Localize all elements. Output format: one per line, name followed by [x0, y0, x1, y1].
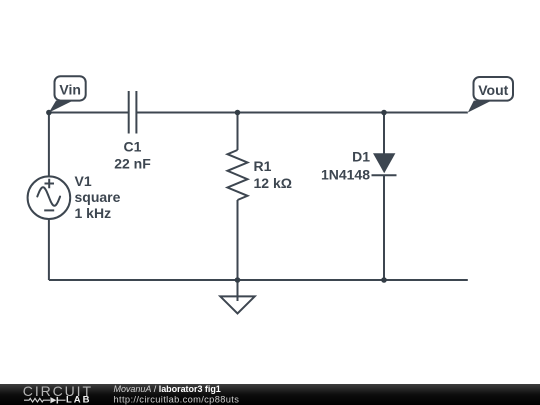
CircuitLab logo waveform with diode — [24, 398, 66, 402]
resistor R1 — [228, 150, 248, 200]
footer bar — [0, 384, 540, 405]
node dot Vin — [46, 110, 52, 116]
wire left vertical lower: V1 bottom to bottom rail — [48, 219, 50, 280]
wire left vertical upper: Vin node to V1 top — [48, 113, 50, 177]
svg-text:C1: C1 — [124, 139, 142, 155]
svg-text:12 kΩ: 12 kΩ — [254, 175, 292, 191]
svg-text:22 nF: 22 nF — [114, 156, 151, 172]
wire R1 top lead — [237, 113, 239, 151]
node dot R1 top — [235, 110, 241, 116]
svg-text:1 kHz: 1 kHz — [75, 205, 112, 221]
svg-text:LAB: LAB — [66, 395, 92, 405]
svg-text:V1: V1 — [75, 173, 92, 189]
node dot D1 bottom — [381, 277, 387, 283]
diode D1 — [372, 153, 397, 175]
svg-text:square: square — [75, 189, 121, 205]
node dot D1 top — [381, 110, 387, 116]
wire top-left: Vin node to C1 left plate — [49, 112, 129, 114]
svg-text:Vout: Vout — [478, 82, 508, 98]
label R1 value — [254, 158, 292, 191]
node label Vout flag — [468, 77, 513, 113]
wire bottom rail — [49, 279, 468, 281]
label V1 value — [75, 173, 121, 221]
svg-text:http://circuitlab.com/cp88uts: http://circuitlab.com/cp88uts — [114, 394, 240, 404]
wire top-right: C1 right plate to Vout bend — [136, 112, 467, 114]
svg-text:D1: D1 — [352, 149, 370, 165]
svg-text:MovanuA / laborator3 fig1: MovanuA / laborator3 fig1 — [114, 384, 221, 394]
label C1 value — [114, 139, 151, 172]
wire D1 top lead — [383, 113, 385, 155]
label D1 value — [321, 149, 370, 183]
capacitor C1 — [129, 91, 137, 134]
node dot ground — [235, 277, 241, 283]
voltage source V1 — [28, 176, 71, 219]
wire D1 bottom lead — [383, 175, 385, 280]
wire R1 bottom lead — [237, 200, 239, 280]
svg-text:1N4148: 1N4148 — [321, 167, 370, 183]
svg-text:Vin: Vin — [59, 81, 81, 97]
node label Vin flag — [49, 76, 86, 112]
svg-text:R1: R1 — [254, 158, 272, 174]
ground — [220, 280, 254, 314]
